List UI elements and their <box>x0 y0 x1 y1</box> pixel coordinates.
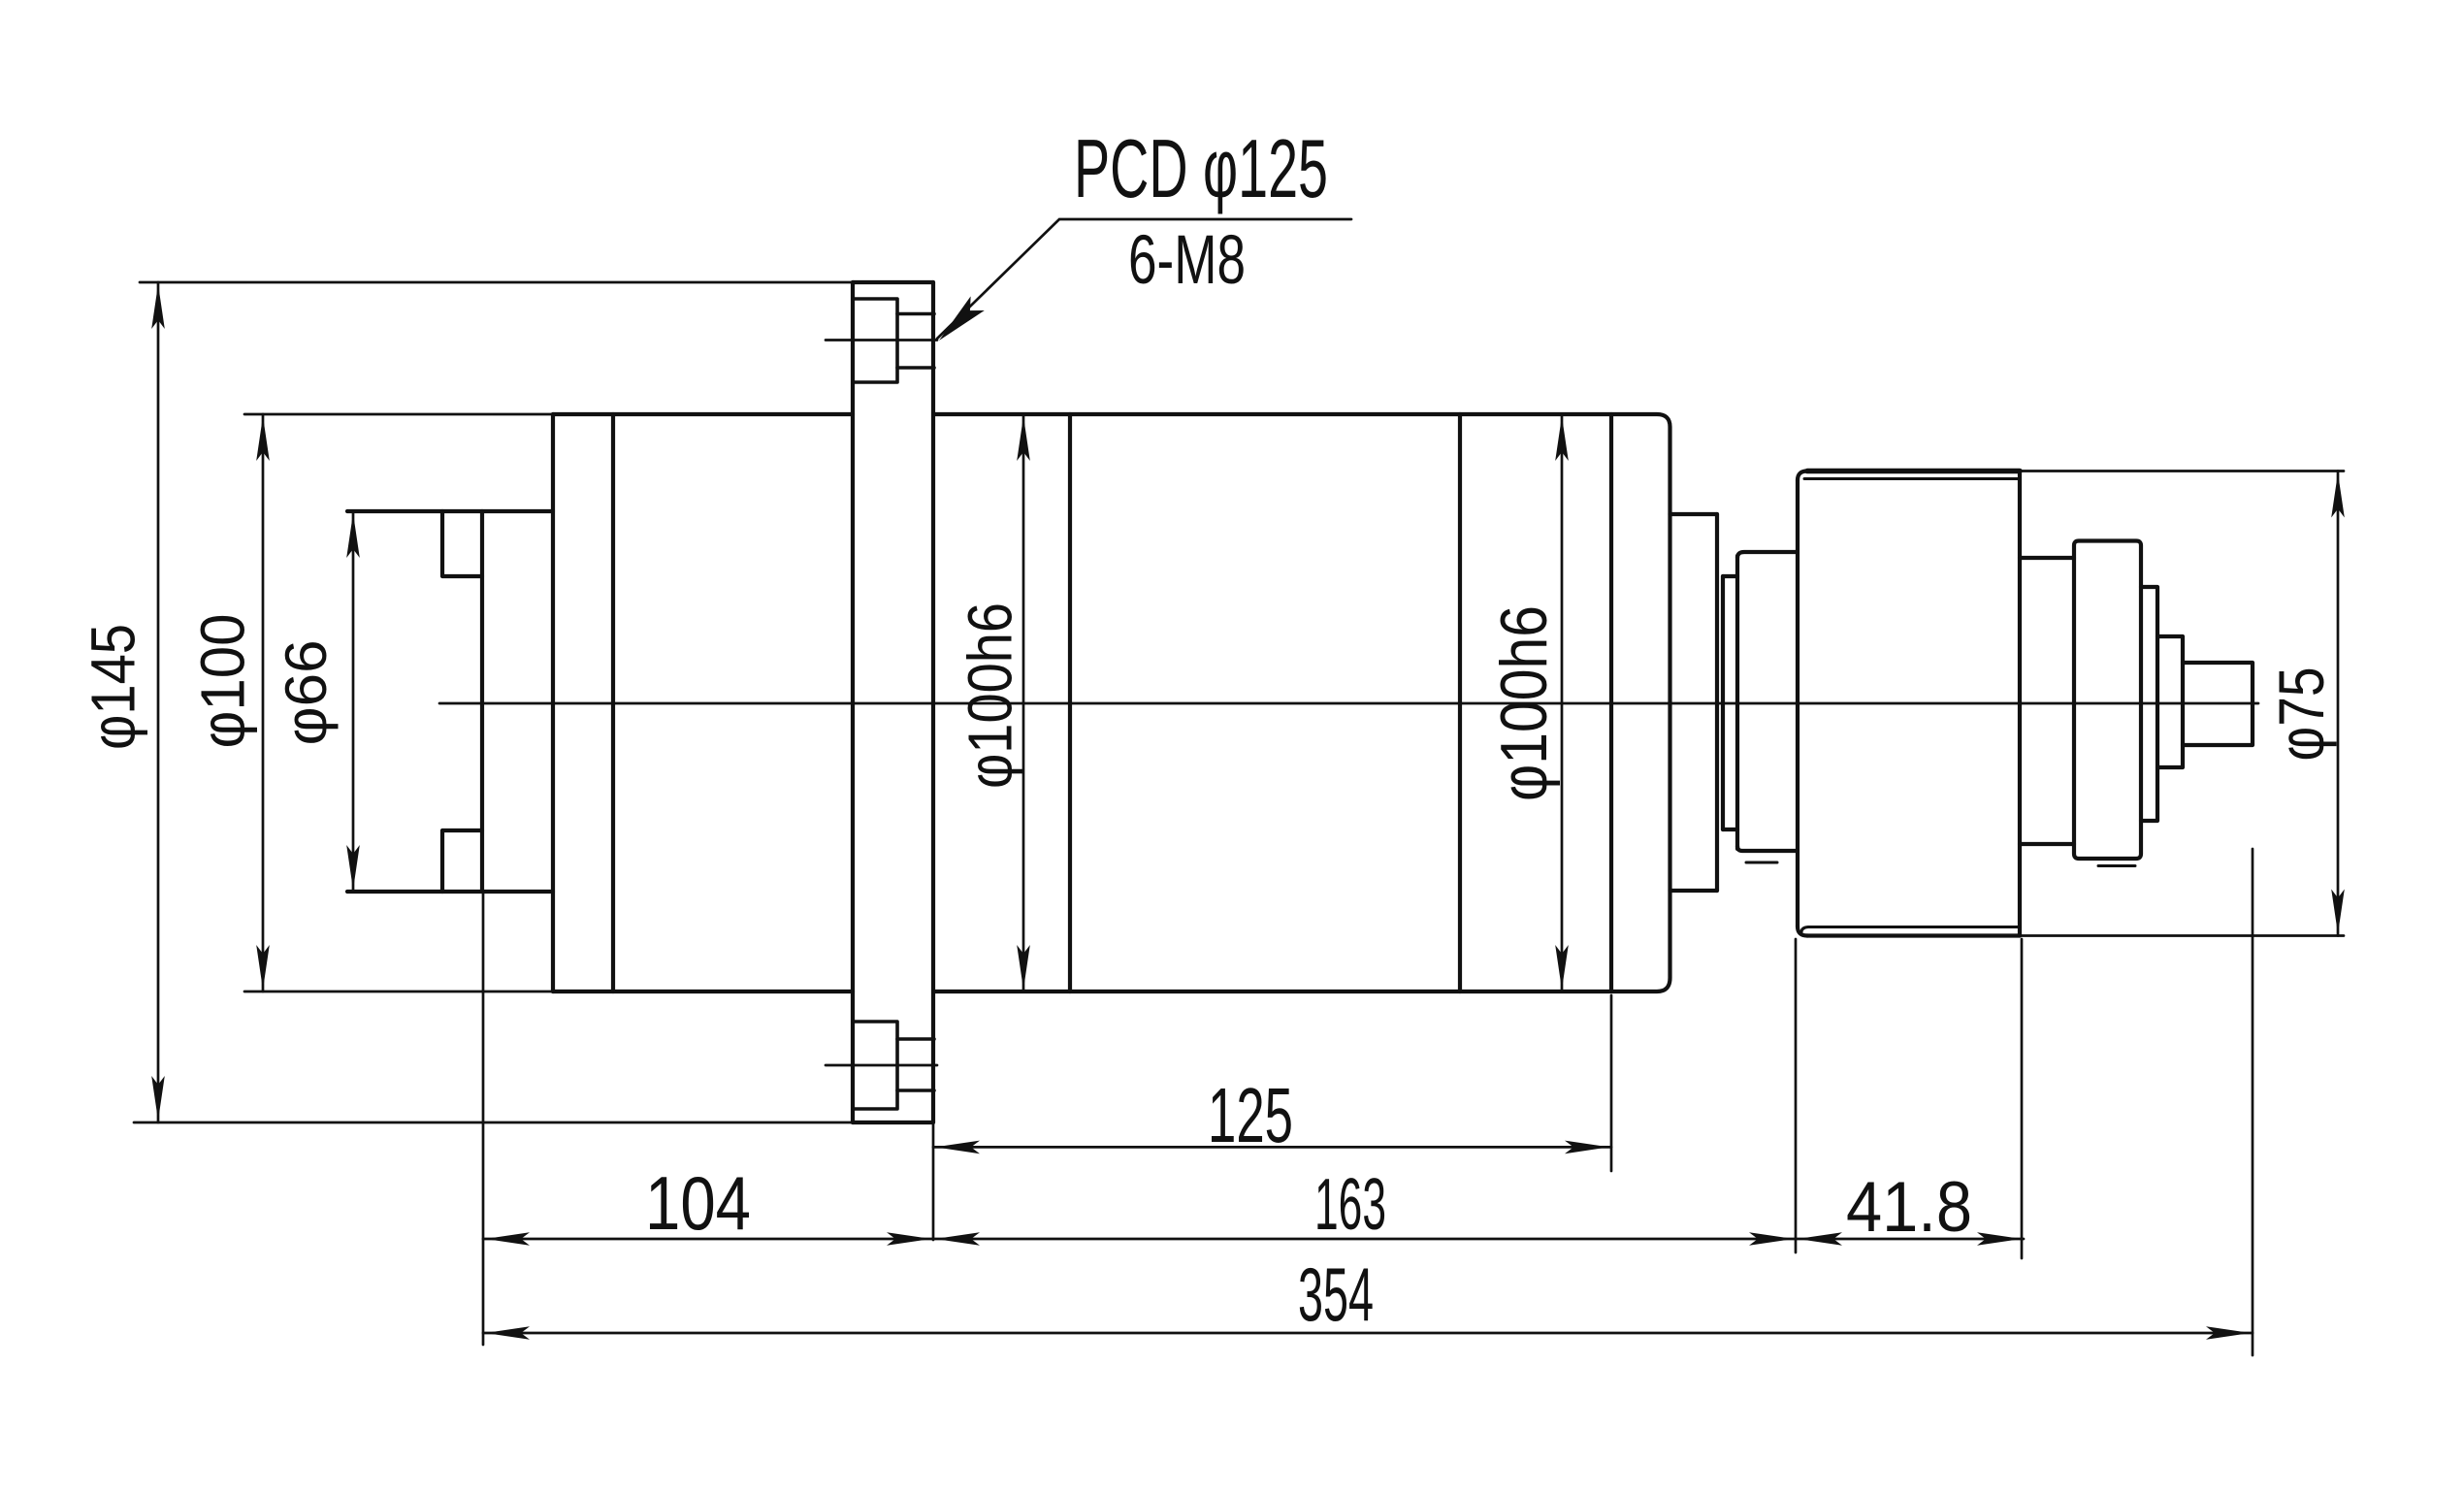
svg-text:163: 163 <box>1314 1163 1386 1245</box>
svg-text:φ145: φ145 <box>79 624 148 750</box>
svg-text:φ100h6: φ100h6 <box>956 602 1025 789</box>
svg-text:φ66: φ66 <box>274 640 339 746</box>
svg-text:125: 125 <box>1208 1072 1293 1158</box>
svg-text:6-M8: 6-M8 <box>1128 222 1246 299</box>
svg-text:41.8: 41.8 <box>1846 1168 1972 1247</box>
svg-text:φ75: φ75 <box>2265 667 2337 762</box>
svg-text:104: 104 <box>645 1160 751 1246</box>
svg-text:φ100: φ100 <box>188 614 258 749</box>
svg-text:φ100h6: φ100h6 <box>1487 605 1561 801</box>
svg-text:354: 354 <box>1298 1251 1374 1337</box>
svg-text:PCD φ125: PCD φ125 <box>1074 123 1328 215</box>
